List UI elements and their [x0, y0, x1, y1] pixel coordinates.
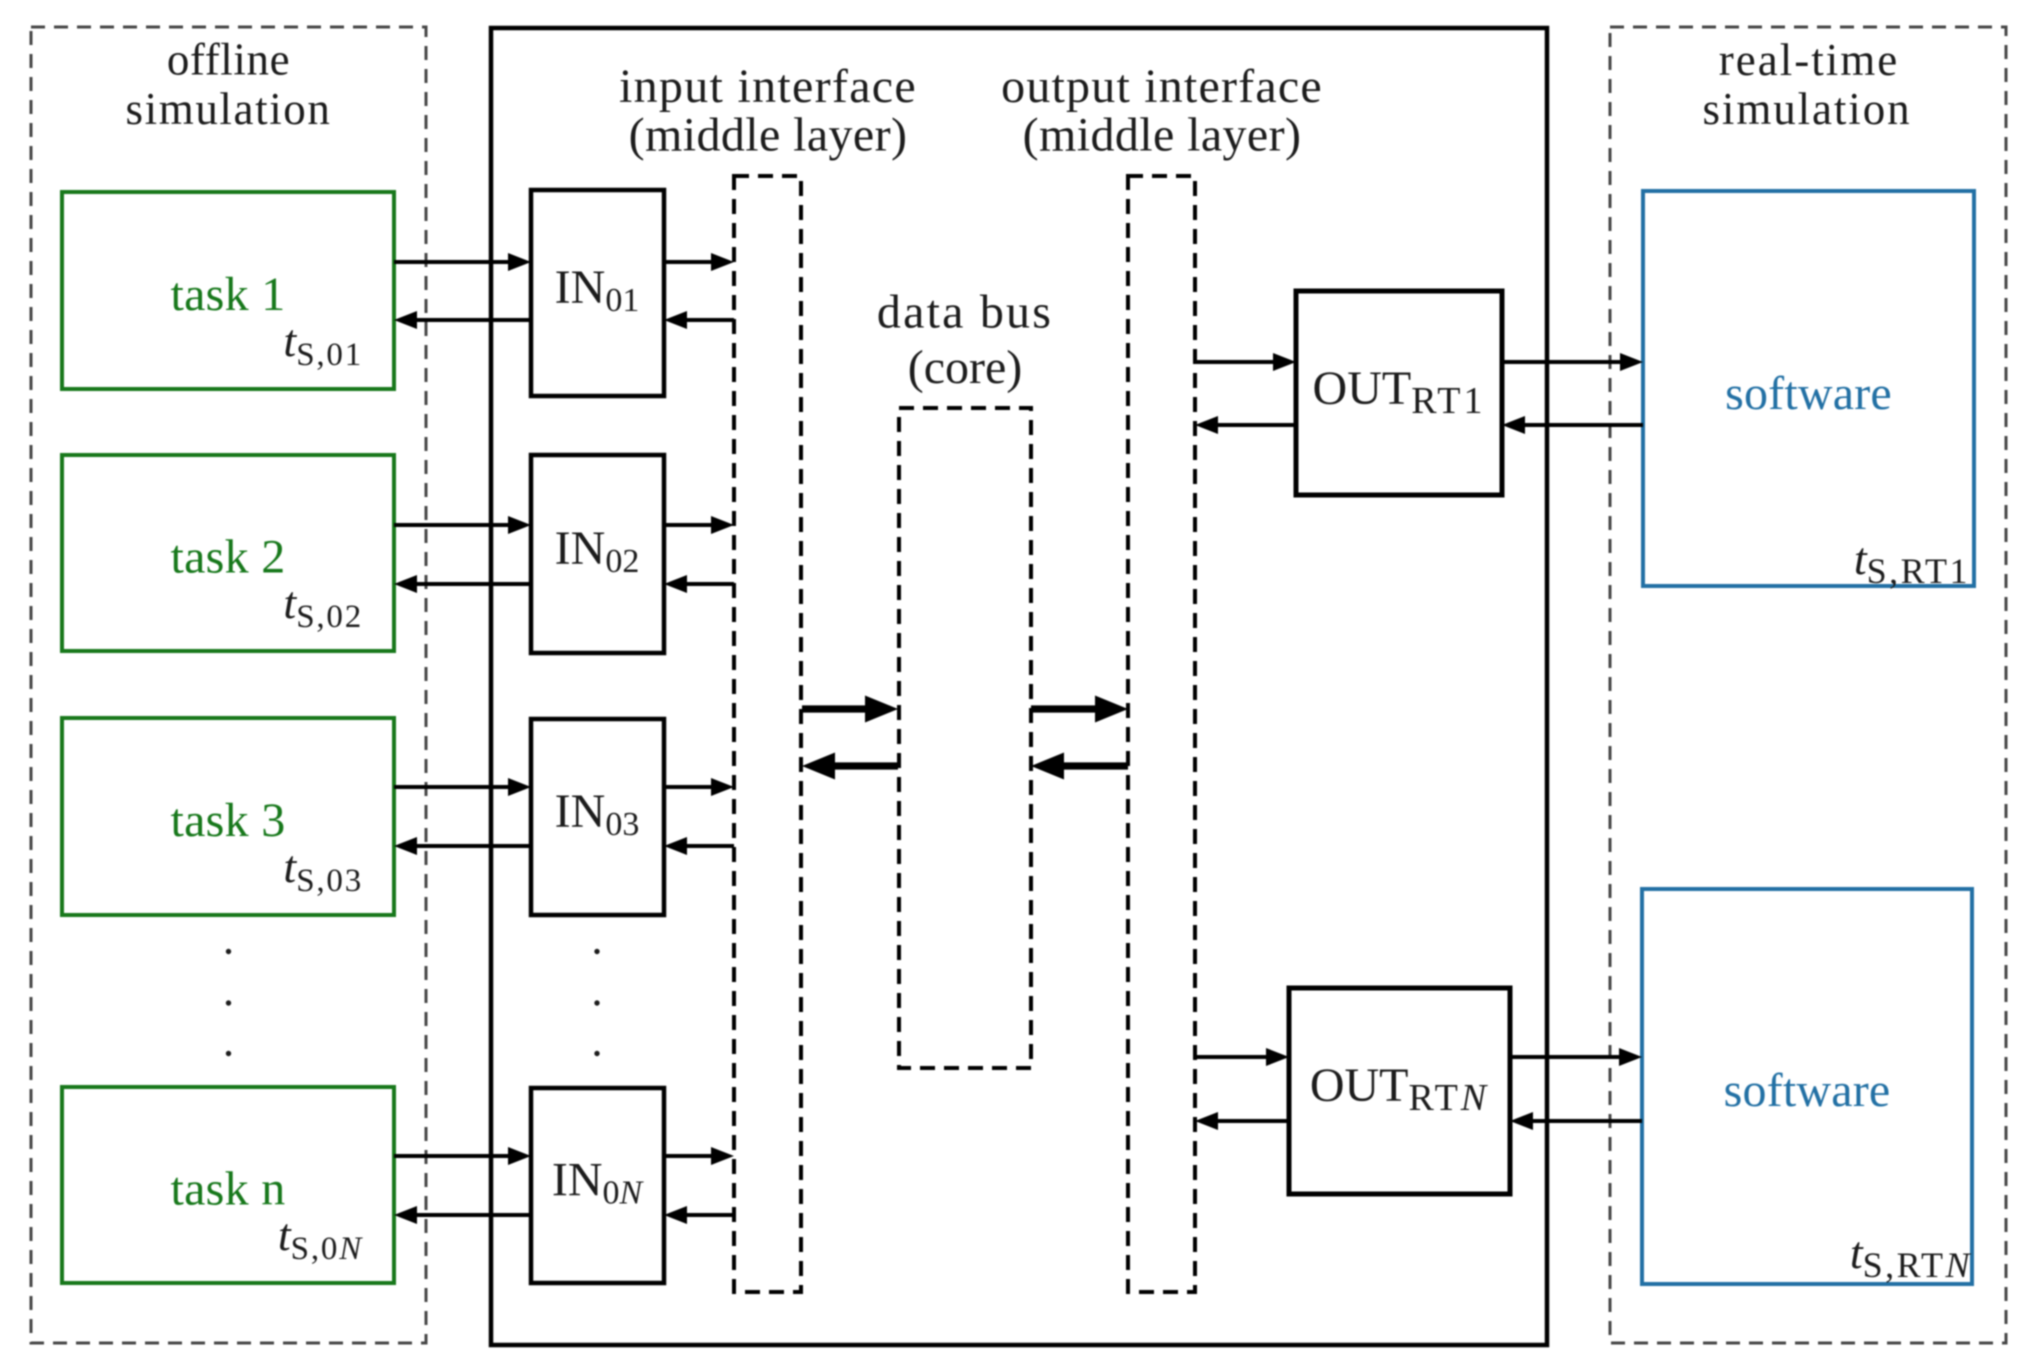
wire output-interface -> OUT_RT1	[1195, 353, 1296, 371]
wire IN -> task n (response)	[394, 1206, 531, 1224]
dashed container: offline simulation	[31, 27, 426, 1343]
box IN0N	[531, 1088, 664, 1283]
wire IN -> input-interface (task 1)	[664, 253, 734, 271]
wire IN -> input-interface (task 2)	[664, 516, 734, 534]
svg-text:software: software	[1725, 367, 1892, 420]
box OUT_RT1	[1296, 291, 1502, 495]
svg-text:task 2: task 2	[170, 531, 285, 584]
wire input-interface -> IN (task 2)	[664, 575, 734, 593]
box IN02	[531, 455, 664, 653]
wire task 1 -> IN (request)	[394, 253, 531, 271]
box IN03	[531, 719, 664, 915]
svg-text:data bus: data bus	[877, 286, 1053, 339]
box software RTN	[1642, 889, 1972, 1284]
wire task 2 -> IN (request)	[394, 516, 531, 534]
svg-text:(middle layer): (middle layer)	[629, 109, 908, 162]
wire IN -> input-interface (task n)	[664, 1147, 734, 1165]
dashed container: real-time simulation	[1610, 27, 2006, 1343]
box IN01	[531, 190, 664, 396]
svg-text:(core): (core)	[908, 341, 1023, 394]
wire task n -> IN (request)	[394, 1147, 531, 1165]
wire IN -> task 2 (response)	[394, 575, 531, 593]
svg-text:input interface: input interface	[619, 60, 917, 113]
svg-text:task n: task n	[170, 1163, 285, 1216]
box task n	[62, 1087, 394, 1283]
svg-text:(middle layer): (middle layer)	[1023, 109, 1302, 162]
wire OUT_RT1 -> output-interface	[1195, 416, 1296, 434]
svg-text:software: software	[1724, 1064, 1891, 1117]
wire input-interface -> IN (task 1)	[664, 311, 734, 329]
svg-text:simulation: simulation	[1703, 84, 1912, 134]
dashed node: output interface boundary	[1128, 176, 1195, 1292]
dashed node: data bus core	[899, 408, 1031, 1068]
svg-text:task 1: task 1	[170, 268, 285, 321]
wire OUT_RTN -> software	[1510, 1048, 1642, 1066]
bus arrow data bus -> input-interface	[802, 753, 898, 780]
bus arrow input-interface -> data bus	[802, 696, 898, 723]
wire software -> OUT_RTN	[1510, 1112, 1642, 1130]
ellipsis dots (IN column)	[594, 949, 599, 1056]
svg-text:output interface: output interface	[1001, 60, 1323, 113]
wire software -> OUT_RT1	[1502, 416, 1643, 434]
box task 3	[62, 718, 394, 915]
box task 1	[62, 192, 394, 389]
ellipsis dots (task column)	[226, 949, 231, 1056]
wire IN -> task 1 (response)	[394, 311, 531, 329]
wire IN -> task 3 (response)	[394, 837, 531, 855]
svg-text:offline: offline	[167, 35, 290, 85]
solid container: coupling middleware	[491, 28, 1547, 1345]
svg-text:real-time: real-time	[1719, 35, 1899, 85]
box OUT_RTN	[1289, 988, 1510, 1194]
wire IN -> input-interface (task 3)	[664, 778, 734, 796]
svg-text:task 3: task 3	[170, 794, 285, 847]
box software RT1	[1643, 191, 1974, 586]
wire OUT_RTN -> output-interface	[1195, 1112, 1289, 1130]
bus arrow data bus -> output-interface	[1031, 696, 1128, 723]
wire task 3 -> IN (request)	[394, 778, 531, 796]
wire input-interface -> IN (task 3)	[664, 837, 734, 855]
wire input-interface -> IN (task n)	[664, 1206, 734, 1224]
dashed node: input interface boundary	[734, 176, 801, 1292]
box task 2	[62, 455, 394, 651]
bus arrow output-interface -> data bus	[1031, 753, 1128, 780]
svg-text:simulation: simulation	[126, 84, 332, 134]
wire OUT_RT1 -> software	[1502, 353, 1643, 371]
wire output-interface -> OUT_RTN	[1195, 1048, 1289, 1066]
